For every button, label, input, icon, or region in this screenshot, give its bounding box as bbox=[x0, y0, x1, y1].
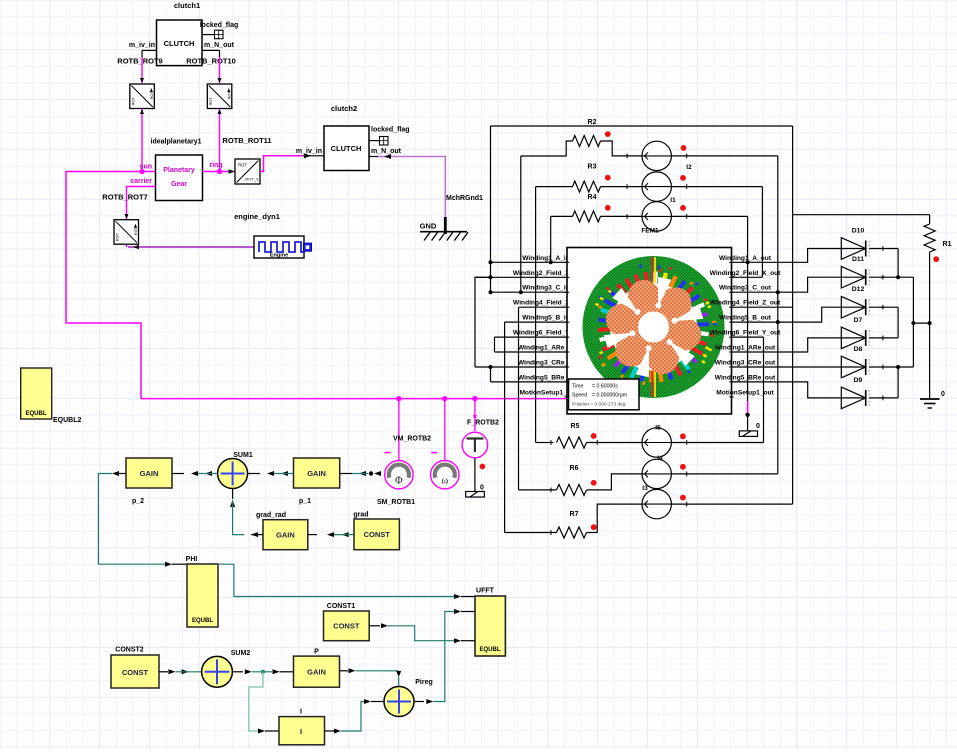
svg-text:ROTB_ROT9: ROTB_ROT9 bbox=[117, 57, 162, 66]
svg-text:ROTB_ROT10: ROTB_ROT10 bbox=[186, 57, 236, 66]
svg-text:SUM1: SUM1 bbox=[233, 452, 253, 459]
svg-text:F_ROTB2: F_ROTB2 bbox=[467, 420, 499, 427]
svg-text:Winding1_ARe_out: Winding1_ARe_out bbox=[715, 345, 776, 352]
svg-text:ROT: ROT bbox=[115, 232, 120, 241]
svg-text:Position = 0.000-273 deg: Position = 0.000-273 deg bbox=[572, 402, 626, 408]
svg-text:SUM2: SUM2 bbox=[231, 650, 251, 657]
svg-text:P: P bbox=[314, 649, 319, 656]
svg-text:Speed: Speed bbox=[572, 393, 587, 399]
svg-text:MchRGnd1: MchRGnd1 bbox=[446, 195, 483, 202]
svg-text:FEM1: FEM1 bbox=[641, 228, 659, 235]
svg-text:Winding3_CRe_out: Winding3_CRe_out bbox=[715, 360, 776, 367]
svg-text:m_N_out: m_N_out bbox=[204, 42, 235, 49]
svg-text:Pireg: Pireg bbox=[415, 679, 433, 686]
svg-text:R7: R7 bbox=[570, 511, 579, 518]
svg-text:= 0.000000rpm: = 0.000000rpm bbox=[592, 393, 627, 399]
svg-text:0: 0 bbox=[756, 423, 760, 430]
svg-text:GAIN: GAIN bbox=[307, 469, 326, 478]
svg-text:ROTB_ROT11: ROTB_ROT11 bbox=[222, 136, 271, 145]
svg-text:sun: sun bbox=[140, 164, 152, 171]
svg-text:CONST: CONST bbox=[122, 668, 149, 677]
svg-text:ω: ω bbox=[441, 476, 448, 487]
svg-text:Winding5_B_out: Winding5_B_out bbox=[719, 315, 772, 322]
svg-text:D7: D7 bbox=[854, 317, 863, 324]
svg-text:CONST1: CONST1 bbox=[327, 603, 356, 610]
svg-text:0: 0 bbox=[480, 485, 484, 492]
svg-text:grad_rad: grad_rad bbox=[256, 512, 286, 519]
svg-text:Winding4_Field_Z_out: Winding4_Field_Z_out bbox=[710, 300, 781, 307]
svg-text:locked_flag: locked_flag bbox=[371, 127, 410, 134]
svg-text:UFFT: UFFT bbox=[476, 588, 495, 595]
svg-text:R2: R2 bbox=[588, 119, 597, 126]
svg-text:Winding5_BRe_out: Winding5_BRe_out bbox=[715, 374, 776, 381]
svg-text:Winding5_BRe_in: Winding5_BRe_in bbox=[518, 374, 574, 381]
svg-text:R4: R4 bbox=[588, 194, 597, 201]
svg-text:ROTB_ROT7: ROTB_ROT7 bbox=[102, 193, 147, 202]
svg-text:R3: R3 bbox=[588, 164, 597, 171]
svg-text:0: 0 bbox=[941, 391, 945, 398]
svg-text:GND: GND bbox=[420, 222, 437, 231]
svg-text:p_1: p_1 bbox=[299, 498, 311, 505]
svg-text:clutch1: clutch1 bbox=[174, 1, 200, 10]
svg-text:D11: D11 bbox=[852, 256, 864, 263]
svg-text:PHI: PHI bbox=[186, 556, 198, 563]
svg-text:I4: I4 bbox=[657, 455, 663, 462]
svg-text:Winding1_ARe_in: Winding1_ARe_in bbox=[518, 345, 574, 352]
svg-text:VM_ROTB2: VM_ROTB2 bbox=[393, 436, 431, 443]
svg-text:GAIN: GAIN bbox=[307, 667, 326, 676]
svg-text:EQUBL: EQUBL bbox=[26, 411, 47, 417]
svg-text:I1: I1 bbox=[670, 197, 676, 204]
svg-text:idealplanetary1: idealplanetary1 bbox=[151, 139, 202, 146]
svg-text:I5: I5 bbox=[655, 425, 661, 432]
svg-text:engine_dyn1: engine_dyn1 bbox=[234, 212, 280, 221]
svg-text:Engine: Engine bbox=[270, 253, 288, 259]
svg-text:SM_ROTB1: SM_ROTB1 bbox=[377, 499, 415, 506]
svg-text:EQUBL: EQUBL bbox=[480, 647, 501, 653]
svg-text:I3: I3 bbox=[642, 485, 648, 492]
svg-text:CLUTCH: CLUTCH bbox=[331, 144, 362, 153]
svg-text:Time: Time bbox=[572, 384, 583, 390]
svg-text:D9: D9 bbox=[854, 377, 863, 384]
svg-text:carrier: carrier bbox=[130, 178, 152, 185]
svg-text:Winding1_A_in: Winding1_A_in bbox=[522, 255, 570, 262]
svg-text:CLUTCH: CLUTCH bbox=[164, 39, 195, 48]
svg-text:I2: I2 bbox=[686, 164, 692, 171]
svg-text:ROT_V: ROT_V bbox=[245, 177, 259, 182]
svg-text:p_2: p_2 bbox=[132, 498, 144, 505]
svg-text:Winding1_A_out: Winding1_A_out bbox=[719, 255, 772, 262]
svg-text:locked_flag: locked_flag bbox=[200, 22, 239, 29]
svg-text:D10: D10 bbox=[852, 228, 865, 235]
svg-text:EQUBL2: EQUBL2 bbox=[53, 417, 82, 424]
svg-text:m_N_out: m_N_out bbox=[371, 148, 402, 155]
svg-text:GAIN: GAIN bbox=[140, 469, 159, 478]
svg-text:ROT: ROT bbox=[208, 97, 213, 106]
svg-text:CONST: CONST bbox=[364, 530, 391, 539]
svg-text:Winding6_Field_Y_out: Winding6_Field_Y_out bbox=[710, 330, 781, 337]
svg-text:Planetary: Planetary bbox=[163, 167, 195, 174]
svg-text:R1: R1 bbox=[943, 241, 952, 248]
svg-text:CONST2: CONST2 bbox=[115, 647, 144, 654]
svg-text:D8: D8 bbox=[854, 346, 863, 353]
svg-text:Winding5_B_in: Winding5_B_in bbox=[522, 315, 570, 322]
svg-text:Winding3_C_out: Winding3_C_out bbox=[719, 285, 772, 292]
svg-text:ROT: ROT bbox=[130, 97, 135, 106]
svg-text:Φ: Φ bbox=[395, 476, 403, 487]
svg-text:Winding2_Field_X_out: Winding2_Field_X_out bbox=[710, 270, 781, 277]
svg-text:grad: grad bbox=[353, 512, 368, 519]
svg-text:D12: D12 bbox=[852, 286, 865, 293]
svg-text:MotionSetup1_in: MotionSetup1_in bbox=[519, 389, 572, 396]
svg-text:m_iv_in: m_iv_in bbox=[129, 42, 155, 49]
svg-text:EQUBL: EQUBL bbox=[192, 618, 213, 624]
svg-text:MotionSetup1_out: MotionSetup1_out bbox=[716, 389, 774, 396]
svg-text:I: I bbox=[300, 727, 302, 736]
svg-text:clutch2: clutch2 bbox=[331, 104, 357, 113]
svg-text:Winding3_C_in: Winding3_C_in bbox=[522, 285, 570, 292]
svg-text:I: I bbox=[300, 709, 302, 716]
svg-text:R6: R6 bbox=[570, 465, 579, 472]
svg-text:= 0.60000s: = 0.60000s bbox=[592, 384, 618, 390]
svg-text:R5: R5 bbox=[571, 423, 580, 430]
svg-text:ROT: ROT bbox=[238, 163, 247, 168]
svg-text:Winding3_CRe_in: Winding3_CRe_in bbox=[518, 360, 574, 367]
svg-text:ring: ring bbox=[209, 162, 222, 169]
svg-text:Gear: Gear bbox=[171, 181, 187, 188]
svg-text:CONST: CONST bbox=[333, 622, 360, 631]
svg-text:m_iv_in: m_iv_in bbox=[296, 148, 322, 155]
svg-text:GAIN: GAIN bbox=[276, 531, 295, 540]
